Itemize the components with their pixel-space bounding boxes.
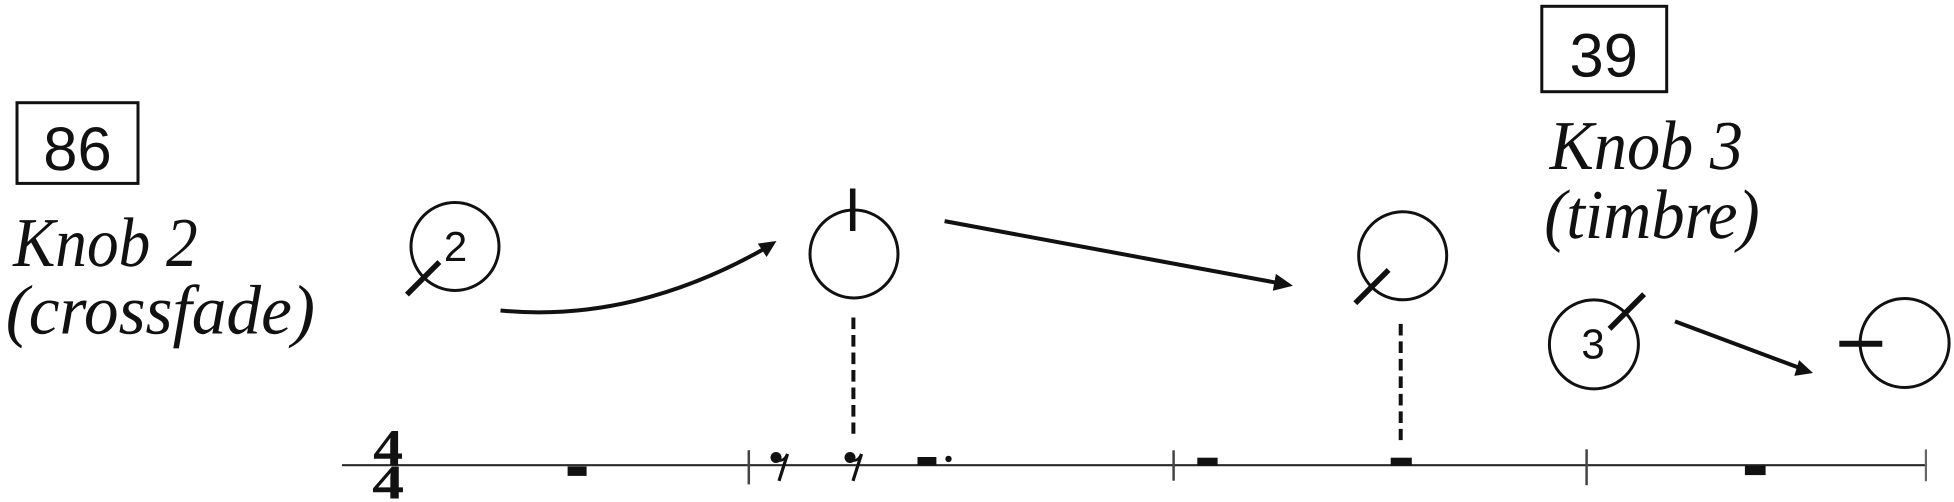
half rest measure 3 beat 3 [1391,458,1412,466]
svg-text:39: 39 [1569,21,1637,90]
knob A indicator [407,262,440,295]
whole rest measure 1 [568,467,587,476]
final barline [1925,449,1927,481]
eighth rest 2 [845,452,862,481]
label (timbre) [1544,177,1759,254]
curved arrow head [758,241,777,257]
curved arrow knob A to knob B [501,250,764,313]
straight arrow head [1273,274,1293,291]
label (crossfade) [6,273,315,350]
svg-text:Knob 2: Knob 2 [12,205,198,282]
barline 3 [1585,449,1588,485]
straight arrow knob B to knob C [945,221,1277,283]
svg-text:(crossfade): (crossfade) [6,273,315,350]
svg-text:4: 4 [372,457,404,502]
dashed line from knob B to staff [851,318,855,434]
half rest measure 2 [918,457,937,466]
knob E indicator [1839,341,1882,347]
rehearsal box 86 [17,103,138,184]
knob B circle [810,210,898,298]
svg-text:2: 2 [444,223,467,270]
dashed line from knob C to staff [1399,324,1403,440]
straight arrow head 2 [1794,360,1813,376]
knob E circle [1860,299,1949,388]
knob D circle [1549,300,1638,389]
label Knob 3 [1549,108,1743,185]
label Knob 2 [12,205,198,282]
rehearsal box 39 [1542,6,1667,91]
whole rest measure 4 [1745,466,1766,476]
svg-text:3: 3 [1581,321,1604,368]
svg-text:Knob 3: Knob 3 [1549,108,1743,185]
eighth rest 1 [771,452,788,481]
barline 2 [1172,450,1175,480]
svg-text:86: 86 [43,115,111,184]
staff line [342,464,1926,466]
straight arrow knob D to knob E [1675,321,1799,367]
knob C circle [1359,212,1447,300]
svg-text:(timbre): (timbre) [1544,177,1759,254]
knob D indicator [1610,294,1645,329]
knob C indicator [1355,270,1388,303]
half rest measure 3 beat 1 [1197,458,1217,466]
knob B indicator [850,189,856,232]
augmentation dot [945,456,951,462]
barline 1 [748,450,751,484]
knob A circle [411,203,499,291]
